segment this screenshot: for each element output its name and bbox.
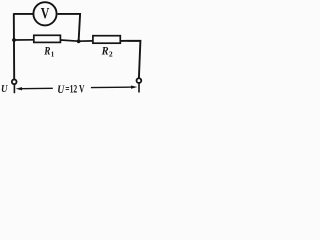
wire node B to resistor R2 <box>79 40 93 42</box>
svg-text:R: R <box>101 44 109 58</box>
right extension tick below right terminal <box>138 83 140 92</box>
wire node A to resistor R1 <box>14 39 34 41</box>
left extension tick below left terminal <box>13 85 15 94</box>
wire left vertical (top corner down to left terminal) <box>13 13 15 79</box>
svg-text:R: R <box>43 45 50 58</box>
svg-text:U: U <box>1 84 8 95</box>
wire top-right horizontal (voltmeter to corner) and vertical down to node B <box>58 14 81 41</box>
node B junction dot (voltmeter branch meets R1-R2 wire) <box>77 39 81 43</box>
wire R2 to top-right corner and right vertical down to right terminal <box>120 41 140 79</box>
node A junction dot (left, wire to R1) <box>12 38 16 42</box>
svg-text:=12 V: =12 V <box>65 84 84 96</box>
wire R1 to node B <box>60 40 78 41</box>
left terminal (open circle) <box>12 79 17 84</box>
svg-text:U: U <box>57 83 65 96</box>
voltmeter V1 circle <box>33 2 56 25</box>
right terminal (open circle) <box>137 78 142 83</box>
svg-text:1: 1 <box>51 50 55 58</box>
dimension arrow right (points right at right tick) <box>91 86 132 89</box>
resistor R2 body <box>93 36 120 44</box>
dimension arrow left (points left at left tick) <box>21 87 53 89</box>
resistor R1 body <box>34 35 61 42</box>
svg-text:2: 2 <box>109 50 113 59</box>
wire top-left horizontal (corner to voltmeter) <box>14 13 33 15</box>
svg-text:V: V <box>41 6 50 23</box>
